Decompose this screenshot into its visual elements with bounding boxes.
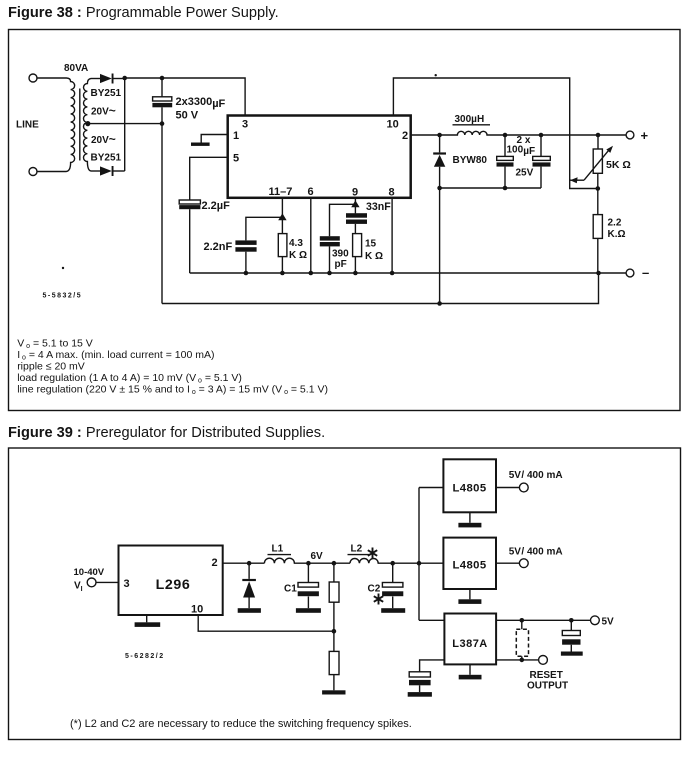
svg-text:300µH: 300µH <box>455 114 485 125</box>
svg-text:L2: L2 <box>351 544 363 555</box>
svg-text:Figure 39 : Preregulator for D: Figure 39 : Preregulator for Distributed… <box>8 425 325 441</box>
wire L387A reset output <box>496 659 539 661</box>
node stray speck left <box>62 267 64 269</box>
wire underline L2 <box>348 554 370 556</box>
svg-text:20V~: 20V~ <box>91 132 116 146</box>
svg-text:line regulation (220 V ± 15 %: line regulation (220 V ± 15 % and to I o… <box>17 384 328 397</box>
svg-text:L4805: L4805 <box>452 559 486 571</box>
svg-text:+: + <box>641 128 649 143</box>
capacitor 390pF <box>320 236 340 273</box>
svg-text:10-40V: 10-40V <box>74 567 105 578</box>
svg-text:9: 9 <box>352 187 358 199</box>
node resistor chain junction <box>332 561 337 566</box>
svg-text:(*) L2 and C2 are necessary to: (*) L2 and C2 are necessary to reduce th… <box>70 718 412 730</box>
svg-text:L1: L1 <box>272 544 284 555</box>
svg-text:OUTPUT: OUTPUT <box>527 681 568 692</box>
op-amp U3 L4805 first <box>443 459 496 512</box>
wire L387A top output <box>496 619 591 621</box>
svg-text:6V: 6V <box>311 551 324 562</box>
svg-text:L296: L296 <box>156 577 191 593</box>
svg-text:BY251: BY251 <box>91 88 122 99</box>
wire pin 6 down <box>310 198 312 273</box>
node LINE terminal top <box>29 74 37 82</box>
capacitor 2.2nF <box>235 240 256 273</box>
transformer T1 secondary <box>84 79 92 172</box>
node dashed resistor top junction <box>520 618 525 623</box>
node feedback junction <box>332 629 337 634</box>
svg-text:2x3300µF: 2x3300µF <box>176 96 226 110</box>
op-amp U2 L296 box <box>119 546 223 616</box>
svg-text:L387A: L387A <box>452 638 488 650</box>
resistor R2 chain lower <box>322 651 345 694</box>
potentiometer 5K <box>570 135 613 215</box>
svg-text:C1: C1 <box>284 584 297 595</box>
inductor L2 <box>350 559 443 564</box>
wire return line left <box>161 124 163 304</box>
inductor L1 <box>264 558 350 563</box>
wire pin 2 to L1 <box>223 562 265 564</box>
svg-text:5V: 5V <box>602 617 615 628</box>
svg-text:6: 6 <box>308 186 314 198</box>
svg-text:5-5832/5: 5-5832/5 <box>43 293 83 300</box>
node pin 2 junction <box>437 133 442 138</box>
svg-text:390: 390 <box>332 249 349 260</box>
wire pin 9 down <box>354 198 356 214</box>
wire pin 10 sense line <box>393 78 597 189</box>
node output terminal first <box>519 483 528 492</box>
node output terminal second <box>519 559 528 568</box>
value label asterisk L2 <box>368 548 377 559</box>
node junction 11-7 <box>278 213 286 220</box>
wire underline 300uH <box>453 124 491 126</box>
resistor 4.3K <box>278 234 287 273</box>
node caps bottom dots <box>437 186 507 191</box>
wire pin 5 to C 2.2uF <box>190 157 228 200</box>
capacitor 2.2uF <box>179 200 200 273</box>
wire rectifier output vertical <box>124 78 126 171</box>
node center tap <box>85 121 90 126</box>
wire feed vertical <box>418 488 420 621</box>
diode freewheel <box>238 563 261 613</box>
svg-text:2: 2 <box>212 557 218 569</box>
wire L4805 first output <box>496 487 520 489</box>
capacitor 33nF <box>346 213 367 233</box>
inductor 300uH <box>440 131 627 135</box>
svg-text:5: 5 <box>233 153 239 165</box>
wire L4805 second output <box>496 562 520 564</box>
op-amp U4 L4805 second <box>443 538 496 589</box>
node feed junction <box>417 561 422 566</box>
ground L4805 first <box>458 512 481 527</box>
svg-text:1: 1 <box>233 130 239 142</box>
resistor R1 chain upper <box>329 563 339 651</box>
capacitor delay <box>408 672 432 697</box>
svg-text:Figure 38 : Programmable Power: Figure 38 : Programmable Power Supply. <box>8 5 279 21</box>
svg-text:3: 3 <box>124 578 130 590</box>
svg-text:33nF: 33nF <box>366 201 391 213</box>
node 5V cap junction <box>569 618 574 623</box>
svg-text:BY251: BY251 <box>91 153 122 164</box>
node return junction <box>437 301 442 306</box>
svg-text:2.2µF: 2.2µF <box>202 200 231 212</box>
node 6V junction <box>306 561 311 566</box>
resistor 2.2K <box>593 215 602 273</box>
capacitor 100uF first <box>497 135 514 188</box>
svg-text:80VA: 80VA <box>64 63 88 74</box>
wire pin 11-7 down <box>281 198 283 234</box>
capacitor 5V output <box>561 620 583 655</box>
wire minus rail <box>190 272 627 274</box>
svg-text:K Ω: K Ω <box>365 251 383 262</box>
node rectifier junction <box>122 76 127 81</box>
svg-text:10: 10 <box>387 119 399 131</box>
svg-text:3: 3 <box>242 119 248 131</box>
ground pin 1 <box>191 143 210 146</box>
svg-text:5V/ 400 mA: 5V/ 400 mA <box>509 470 563 481</box>
wire bottom return rail <box>162 273 599 304</box>
node 5V terminal <box>591 616 600 625</box>
resistor reset pull-up dashed <box>516 620 528 660</box>
capacitor C2 <box>381 563 405 613</box>
wire feed to L4805 first <box>419 487 443 489</box>
wire underline L1 <box>268 554 292 556</box>
svg-text:2: 2 <box>402 130 408 142</box>
op-amp U5 L387A <box>444 614 496 665</box>
node minus terminal <box>626 269 634 277</box>
capacitor 2x3300uF <box>152 78 172 124</box>
svg-text:BYW80: BYW80 <box>453 155 488 166</box>
svg-text:RESET: RESET <box>530 670 563 681</box>
svg-text:50 V: 50 V <box>176 110 199 122</box>
wire feed to L387A <box>419 619 444 621</box>
svg-text:LINE: LINE <box>16 120 39 131</box>
wire junction to C 2.2nF <box>246 217 283 240</box>
capacitor C1 <box>296 563 321 613</box>
wire pin 2 output <box>411 134 440 136</box>
svg-text:pF: pF <box>335 259 347 270</box>
svg-text:C2: C2 <box>368 584 381 595</box>
wire caps bottom <box>440 187 541 189</box>
node C2 junction <box>390 561 395 566</box>
node junction pin 9 <box>351 200 359 207</box>
diode BY251 bottom <box>91 166 125 176</box>
diode BYW80 <box>433 135 446 304</box>
svg-text:100µF: 100µF <box>507 145 536 158</box>
node stray speck top <box>435 74 437 76</box>
svg-text:L4805: L4805 <box>452 483 486 495</box>
op-amp U1 regulator box <box>228 116 411 198</box>
diode BY251 top <box>91 74 125 84</box>
wire top rail to pin 3 <box>125 78 245 116</box>
node reset junction <box>520 658 525 663</box>
svg-text:K Ω: K Ω <box>289 250 307 261</box>
ground L387A <box>459 664 482 679</box>
capacitor 100uF second <box>533 135 551 188</box>
wire center tap to C1 bottom <box>88 123 162 125</box>
node LINE terminal bottom <box>29 168 37 176</box>
svg-text:ripple ≤ 20 mV: ripple ≤ 20 mV <box>17 361 85 373</box>
node plus terminal <box>626 131 634 139</box>
node reset terminal <box>539 656 548 665</box>
svg-text:2.2nF: 2.2nF <box>204 241 233 253</box>
resistor 15K <box>353 234 362 273</box>
svg-text:25V: 25V <box>516 168 534 179</box>
svg-text:8: 8 <box>389 187 395 199</box>
transformer T1 core <box>79 89 81 161</box>
node Vi terminal <box>87 578 96 587</box>
wire Vi to pin 3 <box>96 581 119 583</box>
svg-text:5-6282/2: 5-6282/2 <box>125 653 165 660</box>
node minus junction <box>596 271 601 276</box>
node diode junction <box>247 561 252 566</box>
svg-text:20V~: 20V~ <box>91 104 116 118</box>
node cap top junction <box>160 76 165 81</box>
svg-text:K.Ω: K.Ω <box>608 229 626 240</box>
svg-text:10: 10 <box>191 604 203 616</box>
svg-text:11–7: 11–7 <box>269 186 293 198</box>
svg-text:15: 15 <box>365 239 377 250</box>
transformer T1 primary <box>37 78 75 172</box>
svg-text:4.3: 4.3 <box>289 238 303 249</box>
svg-text:5K Ω: 5K Ω <box>606 159 631 171</box>
wire L387A delay input <box>420 660 445 672</box>
ground L4805 second <box>458 589 481 604</box>
value label asterisk C2 <box>374 594 383 605</box>
svg-text:–: – <box>642 265 649 280</box>
node dots plus rail <box>503 133 601 138</box>
wire pin 8 down <box>391 198 393 273</box>
node cap bottom junction <box>160 121 165 126</box>
node dots on minus rail <box>244 271 395 276</box>
svg-text:2.2: 2.2 <box>608 218 622 229</box>
wire pin 10 feedback <box>198 615 334 631</box>
node sense junction <box>596 186 601 191</box>
wire pin 1 to ground <box>201 135 228 143</box>
wire C 390pF to pin 9 <box>330 204 356 236</box>
svg-text:5V/ 400 mA: 5V/ 400 mA <box>509 547 563 558</box>
ground L296 <box>135 615 161 627</box>
